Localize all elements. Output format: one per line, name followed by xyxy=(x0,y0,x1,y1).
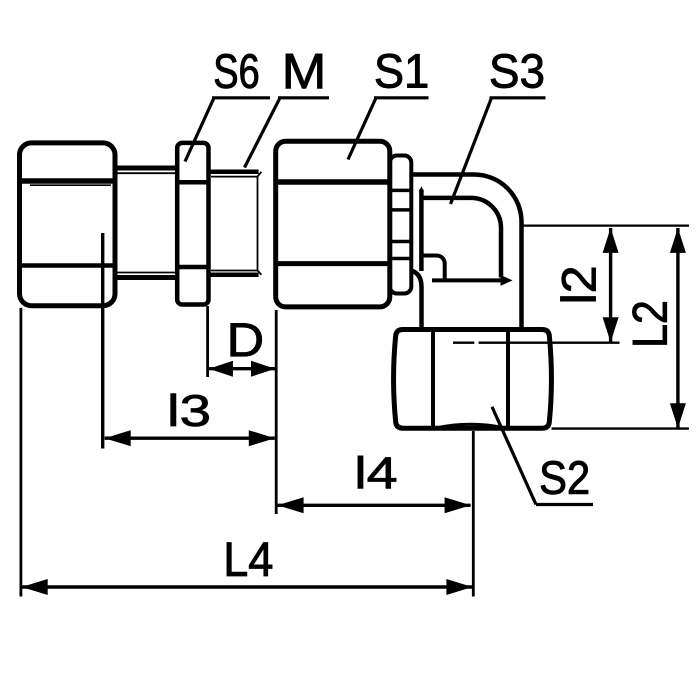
tube bottom thin line xyxy=(115,272,176,274)
label M xyxy=(286,54,322,88)
left swivel nut body xyxy=(20,143,116,306)
dimension D line xyxy=(209,367,276,370)
washer line 2 xyxy=(390,208,411,212)
dimension I3 line xyxy=(105,437,275,440)
label S1 xyxy=(376,54,427,88)
body hex S1 xyxy=(276,141,390,307)
thread major bottom line xyxy=(211,273,259,278)
washer line 1 xyxy=(390,189,411,193)
tube bottom outer line xyxy=(115,275,177,280)
leader M xyxy=(245,98,330,168)
dimension L4 line xyxy=(22,585,473,588)
label S6 xyxy=(215,54,258,88)
nut S2 left facet line xyxy=(431,332,435,427)
label l3 xyxy=(171,394,209,427)
leader S1 xyxy=(348,98,429,160)
elbow leg left edge with fillet xyxy=(413,271,422,331)
bulkhead locknut S6 xyxy=(177,143,208,305)
washer line 3 xyxy=(390,240,411,244)
nut S2 right facet line xyxy=(506,332,510,427)
elbow bore horizontal line with arrow xyxy=(432,278,501,282)
thread M major top line xyxy=(211,169,259,174)
label L2 rotated xyxy=(633,302,667,344)
elbow outer contour xyxy=(411,175,521,330)
dimension L2 line xyxy=(676,228,679,428)
centerline reference line for l2 L2 xyxy=(524,225,690,227)
dimension l2 line xyxy=(609,228,612,343)
thread end vertical thin line xyxy=(257,177,259,271)
dimension I4 line xyxy=(278,504,471,507)
label l2 rotated xyxy=(561,268,596,301)
thread end top chamfer xyxy=(258,172,262,177)
l2 bottom reference line dash xyxy=(453,342,474,344)
L2 bottom reference line xyxy=(552,427,690,429)
leader S3 xyxy=(451,98,546,204)
hex S1 upper facet line xyxy=(277,179,389,185)
tube top thin line xyxy=(115,172,176,174)
thread minor top thin line xyxy=(211,176,258,178)
thread end bottom chamfer xyxy=(258,271,262,275)
elbow inner shelf step xyxy=(422,255,445,278)
label l4 xyxy=(358,456,396,488)
nut S2 bottom chamfer arc xyxy=(436,424,505,428)
extension line S2 axis I4 L4 right xyxy=(472,431,475,597)
l2 bottom reference line xyxy=(479,342,620,344)
tube between nut and locknut: top outer line xyxy=(115,166,177,171)
washer ring stack xyxy=(390,156,412,294)
elbow bore vertical line with tip xyxy=(419,190,424,272)
leader S6 xyxy=(185,98,270,162)
extension line left nut face xyxy=(19,308,22,597)
left nut lower facet line xyxy=(21,263,113,268)
thread minor bottom thin line xyxy=(211,270,258,272)
washer line 4 xyxy=(390,257,411,261)
nut S2 outline xyxy=(394,330,552,429)
elbow inner contour xyxy=(424,198,502,278)
leader S2 xyxy=(492,407,593,505)
hex S1 lower facet line xyxy=(277,261,389,266)
tube end line inside nut / I3 extension line xyxy=(101,233,104,449)
extension line hex left / D right I3 I4 xyxy=(275,310,278,514)
locknut upper facet line xyxy=(176,180,210,185)
left nut upper facet line xyxy=(21,178,113,184)
label S2 xyxy=(541,461,588,494)
label L4 xyxy=(227,543,272,576)
locknut lower facet line xyxy=(176,265,210,270)
left nut upper facet chamfer thin line xyxy=(30,184,111,186)
label S3 xyxy=(491,54,543,88)
extension line locknut right / D left xyxy=(206,306,209,377)
label D xyxy=(231,323,262,356)
